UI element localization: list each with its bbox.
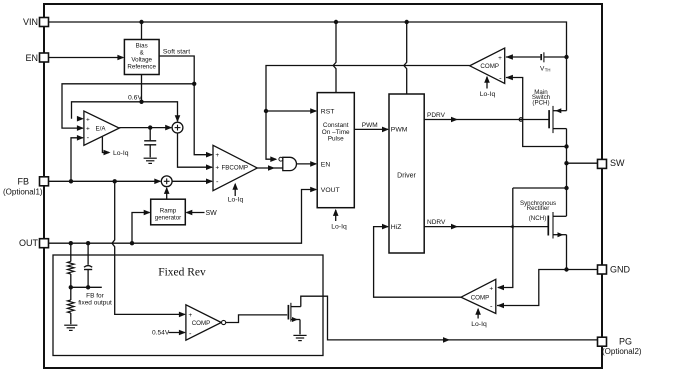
svg-text:FB: FB <box>17 176 29 186</box>
battery VTH <box>506 52 567 72</box>
wire VIN rail (top) <box>49 22 567 53</box>
summing node S2 <box>161 176 172 187</box>
pin EN <box>25 53 48 63</box>
pin VIN <box>23 17 49 27</box>
resistor R2 <box>68 287 75 324</box>
svg-text:PDRV: PDRV <box>427 112 446 119</box>
svg-text:(NCH): (NCH) <box>529 215 547 222</box>
node VIN-COT junction <box>334 20 338 24</box>
wire soft start <box>159 56 213 158</box>
wire S2 to FBCOMP inverting <box>172 179 213 185</box>
svg-text:Lo-Iq: Lo-Iq <box>228 197 244 204</box>
label 0.54V <box>152 329 186 336</box>
node GND junction <box>564 267 568 271</box>
label Main Switch (PCH) <box>532 89 551 106</box>
svg-text:VIN: VIN <box>23 17 38 27</box>
wire SW sense to COMP+ <box>497 188 567 290</box>
label Lo-Iq COMP bottom <box>471 308 487 328</box>
ground for divider <box>64 325 77 330</box>
node VIN-bias junction <box>139 20 143 24</box>
svg-text:EN: EN <box>25 53 38 63</box>
transistor Q3 PG driver <box>288 303 300 322</box>
transistor Synchronous Rectifier NCH <box>548 212 566 239</box>
svg-text:(Optional2): (Optional2) <box>602 347 642 356</box>
label Lo-Iq E/A <box>102 137 128 157</box>
node compensation junction <box>148 125 152 129</box>
hop PDRV over sense wire <box>519 118 523 122</box>
svg-text:GND: GND <box>610 265 631 275</box>
wire FBCOMP output to AND <box>257 165 282 171</box>
wire Q3 source to ground <box>299 320 301 335</box>
svg-text:FBCOMP: FBCOMP <box>222 165 248 172</box>
svg-text:SW: SW <box>610 158 625 168</box>
wire ramp to S2 <box>164 187 170 199</box>
label Soft start <box>163 49 190 56</box>
wire NMOS source to GND <box>566 235 568 270</box>
label Lo-Iq FBCOMP <box>228 183 244 204</box>
wire NDRV <box>424 219 548 229</box>
svg-text:Soft start: Soft start <box>163 49 190 56</box>
transistor Main Switch PCH <box>549 106 566 133</box>
node divider junction <box>69 285 102 289</box>
svg-text:Driver: Driver <box>397 172 416 179</box>
svg-text:+: + <box>188 312 192 319</box>
node SW pin junction <box>564 161 568 165</box>
capacitor C1 compensation <box>144 128 156 158</box>
comparator COMP current-limit <box>470 48 505 84</box>
svg-text:+: + <box>215 165 219 172</box>
wire AND output to EN <box>297 161 318 167</box>
op-amp E/A <box>84 111 119 145</box>
svg-text:0.6V: 0.6V <box>128 94 142 101</box>
svg-text:VOUT: VOUT <box>321 187 340 194</box>
wire FB to PG comparator <box>112 181 186 317</box>
node FB-EA junction <box>69 179 73 183</box>
svg-text:COMP: COMP <box>471 295 490 302</box>
svg-text:+: + <box>86 116 90 123</box>
svg-text:PWM: PWM <box>391 126 408 133</box>
svg-text:Pulse: Pulse <box>328 135 344 142</box>
svg-text:FB for: FB for <box>86 292 105 299</box>
svg-text:Lo-Iq: Lo-Iq <box>471 321 487 328</box>
wire VIN to bias block <box>141 22 143 40</box>
svg-text:Rectifier: Rectifier <box>527 205 550 212</box>
svg-text:COMP: COMP <box>192 320 211 327</box>
wire soft start to E/A input <box>62 84 194 131</box>
wire EN to bias <box>49 55 125 61</box>
svg-text:COMP: COMP <box>480 63 499 70</box>
and gate <box>279 157 297 170</box>
wire SW to ramp generator <box>185 210 217 218</box>
svg-text:TH: TH <box>545 68 551 73</box>
chip outline border <box>44 4 602 368</box>
ground for Q3 <box>293 335 306 340</box>
wire to GND pin <box>567 269 598 271</box>
wire PG comparator output <box>226 315 288 323</box>
capacitor C2 <box>84 243 92 287</box>
pin FB (Optional1) <box>3 176 49 196</box>
svg-text:EN: EN <box>321 161 331 168</box>
svg-text:PG: PG <box>619 337 632 347</box>
label 0.6V <box>128 94 142 101</box>
svg-text:SW: SW <box>206 210 218 217</box>
pin GND <box>598 265 631 275</box>
block Fixed Rev box <box>53 255 323 356</box>
svg-text:fixed output: fixed output <box>78 299 112 306</box>
wire OUT to VOUT input <box>49 187 318 244</box>
wire E/A output <box>119 125 172 131</box>
wire PWM <box>354 122 389 132</box>
wire FB to E/A inverting input <box>71 135 84 181</box>
comparator COMP zero-cross <box>461 279 496 313</box>
svg-text:Lo-Iq: Lo-Iq <box>113 150 129 157</box>
label Lo-Iq COT <box>331 209 347 231</box>
wire VIN to driver <box>404 22 407 94</box>
summing node S1 <box>172 122 183 133</box>
svg-text:+: + <box>86 126 90 133</box>
svg-text:Lo-Iq: Lo-Iq <box>480 91 496 98</box>
svg-text:HiZ: HiZ <box>391 224 402 231</box>
svg-text:Lo-Iq: Lo-Iq <box>331 224 347 231</box>
svg-text:OUT: OUT <box>19 238 39 248</box>
pin SW <box>598 158 626 168</box>
node OUT-C2 junction <box>86 241 90 245</box>
node VIN-driver junction <box>405 20 409 24</box>
pin OUT <box>19 238 49 248</box>
wire PG net <box>301 296 598 343</box>
svg-text:generator: generator <box>155 214 182 221</box>
node OUT-ramp junction <box>130 241 134 245</box>
svg-text:+: + <box>215 152 219 159</box>
wire COMP- to SW sense <box>506 75 567 147</box>
node VTH junction <box>564 55 568 59</box>
node FB-divider junction <box>113 179 117 183</box>
label Lo-Iq COMP top <box>480 76 496 98</box>
svg-text:PWM: PWM <box>362 122 378 129</box>
comparator FBCOMP <box>213 145 257 190</box>
wire to RST input <box>266 108 317 114</box>
node SW sense junction <box>564 144 568 148</box>
svg-text:Reference: Reference <box>127 63 156 70</box>
block Ramp generator <box>151 199 186 225</box>
node RST branch junction <box>264 109 268 113</box>
wire COMP- to GND sense <box>497 270 565 309</box>
wire VIN to COT block <box>333 22 336 93</box>
svg-text:+: + <box>498 55 502 62</box>
svg-text:+: + <box>489 285 493 292</box>
block Driver <box>389 94 424 253</box>
label FB for fixed output <box>78 292 112 306</box>
wire FB line <box>49 179 162 185</box>
wire 0.6V reference <box>72 102 181 123</box>
wire COMP output to logic <box>266 66 470 163</box>
block Bias & Voltage Reference <box>124 40 159 75</box>
svg-text:Bias: Bias <box>136 42 148 49</box>
node SW lower sense junction <box>564 186 568 190</box>
svg-text:(PCH): (PCH) <box>532 99 549 106</box>
node OUT-R1 junction <box>69 241 73 245</box>
svg-text:(Optional1): (Optional1) <box>3 188 43 197</box>
resistor R1 <box>68 243 75 287</box>
wire PDRV <box>424 112 549 122</box>
wire bias to 0.6V node <box>141 75 143 102</box>
svg-text:E/A: E/A <box>96 126 107 133</box>
wire S1 to FBCOMP <box>178 133 214 170</box>
wire OUT to ramp generator <box>132 210 151 244</box>
wire HiZ from COMP <box>374 224 461 297</box>
svg-text:RST: RST <box>321 108 335 115</box>
wire to SW pin <box>567 162 598 164</box>
wire SW rail <box>566 129 568 216</box>
svg-text:Ramp: Ramp <box>160 207 177 214</box>
wire VIN rail to PMOS source <box>566 53 568 111</box>
node 0.6V junction <box>139 100 143 104</box>
block Constant On-Time Pulse <box>317 93 354 208</box>
svg-text:NDRV: NDRV <box>427 219 446 226</box>
pin PG (Optional2) <box>598 337 642 356</box>
node soft start junction <box>192 82 196 86</box>
label Synchronous Rectifier (NCH) <box>520 200 556 222</box>
svg-text:Fixed Rev: Fixed Rev <box>158 267 206 279</box>
svg-text:Voltage: Voltage <box>131 56 152 63</box>
ground for C1 <box>144 158 157 163</box>
comparator COMP PG <box>186 305 226 340</box>
svg-text:0.54V: 0.54V <box>152 329 170 336</box>
